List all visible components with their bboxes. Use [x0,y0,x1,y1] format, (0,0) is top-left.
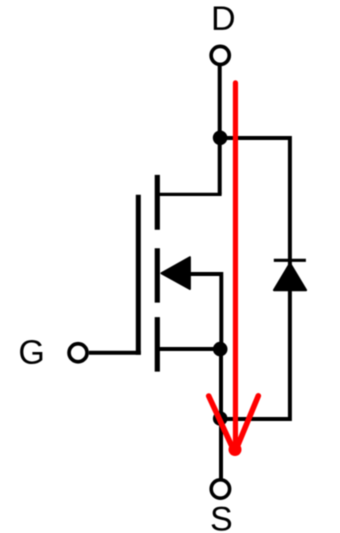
wire drain horizontal to channel [156,193,222,196]
node junction J3 [213,411,228,426]
transistor Q1 channel segment bottom [155,317,160,372]
transistor Q1 channel segment middle [155,248,160,302]
wire gate horizontal [89,351,141,355]
red current arrow shaft [233,83,238,447]
terminal S circle [211,480,229,498]
transistor Q1 body arrow [161,257,190,289]
wire diode branch: top, right vertical, bottom [220,138,290,419]
transistor Q1 channel segment top [155,175,160,230]
wire body arrow to source vertical [189,274,221,349]
terminal label G [20,340,42,364]
wire source vertical [219,349,223,479]
red current arrow head [229,443,242,456]
terminal label S [212,507,232,531]
terminal label D [214,7,234,30]
diode D1 cathode bar [274,259,306,262]
terminal D circle [211,46,229,64]
transistor Q1 gate bar [136,195,141,355]
wire source horizontal [156,347,220,351]
node junction J2 source [213,342,228,357]
wire drain vertical from D terminal [218,66,222,194]
node junction J1 drain [213,131,228,146]
terminal G circle [69,344,87,362]
diode D1 anode triangle [274,263,306,290]
